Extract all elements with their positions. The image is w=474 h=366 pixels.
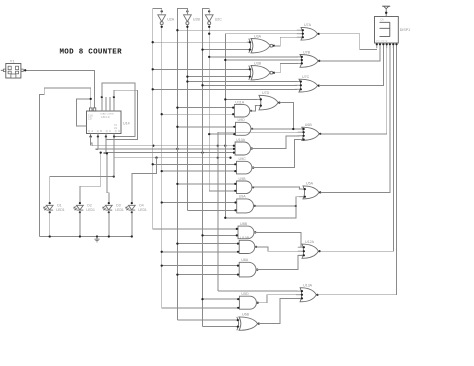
svg-text:LED1: LED1 [115,208,124,212]
junction [201,151,203,153]
OR gate U7D [255,91,281,110]
junction [208,10,210,12]
wire U5D out to U13A [256,295,300,303]
wire U12A out to display pin f [320,46,394,251]
junction [186,26,188,28]
wire U14 output pin [97,134,99,137]
wire QA net [91,143,233,146]
svg-text:U7C: U7C [302,75,310,79]
wire U3B out to U7B [274,63,298,72]
junction U14 enable [90,98,92,100]
junction [224,145,226,147]
svg-text:U2B: U2B [193,17,201,21]
wire U9C out right [252,140,300,168]
svg-text:U8A: U8A [241,258,249,262]
junction [229,157,231,159]
wire U14 pin stub [109,97,111,111]
svg-text:U7B: U7B [303,50,311,54]
AND gate U9C [234,157,254,174]
svg-text:U7A: U7A [304,23,312,27]
AND gate U10B [237,236,258,253]
junction [49,235,51,237]
wire U7B out to display pin b [320,46,381,61]
junction [96,235,98,237]
wire to LED D1 [50,177,114,204]
wire U8A out to U12A [256,255,302,269]
wire gate input feed [203,234,236,236]
junction [113,175,115,177]
svg-text:U7D: U7D [262,91,270,95]
wire gate input feed [187,209,234,211]
7-segment display DISP1 [375,17,411,44]
svg-text:U2C: U2C [215,17,223,21]
junction [186,10,188,12]
svg-text:A B C D: A B C D [101,116,110,119]
junction [176,126,178,128]
junction [201,48,203,50]
svg-text:a b c d e f g: a b c d e f g [376,41,388,43]
wire gate input feed [203,49,249,51]
junction [201,298,203,300]
AND gate U11A [232,100,252,117]
AND gate U8B [236,222,257,239]
wire QB net [96,148,233,151]
wire gate input feed [209,190,234,192]
wire U14 pin stub [113,97,115,111]
wire gate input feed [225,59,297,61]
wire gate input feed [187,81,296,83]
wire U9B out to U5A [252,187,302,189]
wire U14 QD drop [113,137,115,158]
junction [131,235,133,237]
wire bus vertical QD right [217,132,219,291]
svg-text:LED1: LED1 [138,208,147,212]
junction [176,242,178,244]
OR gate U6B or [298,123,322,141]
AND gate U10A [233,138,253,155]
wire to LED D3 [107,153,109,203]
junction U14 output [113,135,115,137]
AND gate U5D [237,292,259,309]
junction crystal pin [24,69,26,71]
wire U14 pin stub [101,97,103,111]
wire U11A out to U7D [250,106,257,111]
junction [208,56,210,58]
svg-text:U9B: U9B [239,177,247,181]
svg-text:QA QB QC QD: QA QB QC QD [88,130,122,133]
OR gate U5A [299,182,322,199]
wire QD branch to D4 [132,158,157,203]
junction [161,264,163,266]
wire gate input feed [203,298,238,300]
svg-text:U3B: U3B [254,61,262,65]
junction [217,157,219,159]
crystal Y1 [1,59,23,78]
AND gate U9B [234,177,254,194]
junction [176,106,178,108]
XNOR gate U3A [247,34,275,53]
wire U14 QB drop [97,137,99,150]
XOR gate U6B [235,313,260,331]
wire D4 cathode [131,212,133,236]
wire gate input feed [203,84,297,86]
junction [176,29,178,31]
wire crystal output to U14 clock [23,70,94,108]
wire U2C output bus [208,24,210,191]
junction U9A output [295,205,297,207]
wire U8B out to U12A [254,232,302,247]
junction [161,113,163,115]
junction [176,273,178,275]
OR gate U13A [296,284,319,302]
wire U2B input loop [177,9,187,321]
wire U6B xor out to U13A [259,298,301,323]
wire U7A in2 feed [225,33,299,35]
wire gate input feed [162,113,232,115]
svg-text:CO: CO [88,117,92,121]
wire gate input feed [177,107,232,109]
OR gate U7B [296,50,321,67]
display pins [376,43,398,48]
junction U14 top pin [101,96,103,98]
wire gate input feed [209,133,233,135]
junction [217,145,219,147]
junction [79,235,81,237]
wire net row [225,197,301,218]
svg-text:DISP1: DISP1 [400,28,410,32]
junction [201,84,203,86]
junction [152,145,154,147]
wire gate input feed [162,265,237,267]
wire U10B out to U12A [255,247,302,251]
wire U13A out to display pin g [318,46,397,295]
OR gate U7A [297,23,320,40]
junction U7D-U9D [292,128,294,130]
LED D4 [126,202,147,213]
ground symbol below LEDs [94,237,99,242]
wire U14 output pin [105,134,107,137]
wire U7C out to display pin c [319,46,384,86]
junction [152,68,154,70]
inverter U2A [158,15,175,25]
wire gate input feed [177,183,234,185]
inverter U2C [205,15,222,25]
junction [152,163,154,165]
wire U9D out right [251,128,302,130]
wire gate input feed [153,163,235,165]
OR gate U7C [295,75,320,92]
junction [161,251,163,253]
AND gate U9D [233,118,253,135]
junction [224,59,226,61]
wire gate input feed [162,251,237,253]
svg-text:U11A: U11A [235,100,244,104]
wire gate input feed [177,274,237,276]
wire U7A out to display pin a [319,34,377,50]
wire U14 output pin [113,134,115,137]
LED D1 [44,202,65,213]
wire U14 enable stub [76,99,90,126]
wire U14 output pin [90,134,92,137]
svg-text:U13A: U13A [303,284,313,288]
LED D3 [103,202,124,213]
wire gate input feed [218,131,300,133]
junction [155,157,157,159]
wire U5A out to display pin e [320,46,390,192]
svg-text:MOD 8 COUNTER: MOD 8 COUNTER [60,49,123,57]
junction [208,133,210,135]
wire gate input feed [177,243,237,245]
svg-text:LED1: LED1 [56,208,65,212]
svg-text:U10B: U10B [240,236,250,240]
junction [152,41,154,43]
wire to LED D2 [80,153,101,204]
AND gate U9A [234,195,256,213]
junction [208,26,210,28]
wire U2C input loop [203,9,210,327]
wire gate input feed [209,56,298,58]
svg-text:CA: CA [380,19,384,22]
AND gate U8A [237,258,259,277]
svg-text:U6B: U6B [305,123,313,127]
svg-text:U12A: U12A [305,240,315,244]
wire LED ground rail [39,236,132,238]
wire gate input feed [177,319,236,321]
wire U2A input loop [153,9,162,229]
junction [161,201,163,203]
junction [176,183,178,185]
junction [161,26,163,28]
junction U14 top pin [113,96,115,98]
svg-text:U2A: U2A [167,17,175,21]
wire gate input feed [203,326,237,328]
junction [100,151,102,153]
wire gate input feed [225,98,256,100]
wire gate input feed [177,126,233,128]
power symbol above display [382,6,390,16]
svg-text:LED1: LED1 [86,208,95,212]
junction U14 output [89,135,91,137]
wire U14 feedback loop outer [102,83,135,137]
wire U7D out to U6B [280,103,294,130]
XNOR gate U3B [247,61,275,80]
junction [161,170,163,172]
svg-text:U3A: U3A [254,34,262,38]
svg-text:U5D: U5D [241,292,249,296]
wire gate input feed [162,202,235,204]
wire gate input feed [153,228,236,230]
wire QD net [114,157,230,159]
wire D1 cathode [49,212,51,236]
svg-text:U9D: U9D [238,118,246,122]
wire U2A output bus [161,24,163,308]
svg-text:Y1: Y1 [10,59,15,63]
wire D3 cathode [108,212,110,236]
svg-text:U10A: U10A [236,138,246,142]
wire U14 feedback loop inner [106,90,137,139]
wire gate input feed [187,76,248,78]
svg-text:U5A: U5A [306,182,314,186]
wire U2B output bus [186,24,188,210]
wire U14 pin stub [105,97,107,111]
junction [186,75,188,77]
svg-text:U14: U14 [123,122,130,126]
wire QD drop to D1 line [113,158,115,177]
LED D2 [74,202,95,213]
junction [201,234,203,236]
wire U6B out to display pin d [320,46,386,134]
wire U14 QC drop [105,137,107,154]
junction [186,80,188,82]
svg-text:U9C: U9C [239,157,247,161]
wire gate input feed [153,68,249,70]
OR gate U12A [298,240,321,258]
wire U14 left rail [39,88,90,237]
junction U14 output [97,135,99,137]
junction [152,88,154,90]
wire QC net [104,152,233,155]
junction [161,10,163,12]
wire U13A in1 feed [218,290,297,292]
wire gate input feed [162,170,235,172]
svg-text:U6B: U6B [242,313,250,317]
junction U14 output [105,135,107,137]
wire U10A out to U6B [251,136,300,149]
wire U9A out to U5A [254,205,296,207]
counter IC U14 [87,108,130,134]
svg-text:U8B: U8B [240,222,248,226]
wire D2 cathode [79,212,81,236]
wire gate input feed [153,88,297,90]
junction [108,235,110,237]
wire gate input feed [162,307,238,309]
svg-text:U9A: U9A [239,195,247,199]
junction U2C out to U7A in2 [208,33,210,35]
wire U14 QA drop [90,137,92,146]
wire gate input feed [153,41,249,43]
wire bus vertical carry [224,34,226,218]
junction [224,217,226,219]
wire gate input feed [177,29,299,31]
wire U3A out to U7A [274,37,300,46]
junction [106,152,108,154]
junction [176,148,178,150]
inverter U2B [184,15,201,25]
junction [224,98,226,100]
